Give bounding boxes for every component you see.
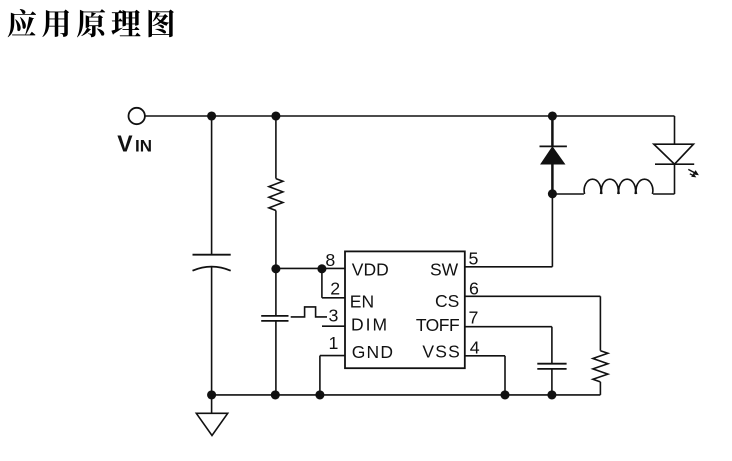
- wire R1 top: [275, 116, 277, 179]
- node junction VDD-C2: [271, 264, 280, 273]
- svg-text:2: 2: [330, 278, 340, 298]
- svg-text:V: V: [117, 130, 133, 156]
- label GND: [352, 342, 395, 362]
- pin 2: [330, 278, 340, 298]
- pin 1: [328, 333, 338, 353]
- pin 3: [329, 306, 339, 326]
- capacitor C3: [537, 364, 566, 369]
- label VDD: [352, 259, 389, 279]
- pin 4: [470, 338, 480, 358]
- diode D1: [540, 146, 567, 193]
- ground: [196, 413, 227, 435]
- capacitor C2: [261, 316, 288, 321]
- svg-text:GND: GND: [352, 342, 395, 362]
- node junction SW node: [548, 189, 557, 198]
- label DIM: [351, 314, 389, 334]
- svg-text:DIM: DIM: [351, 314, 389, 334]
- wire inductor-LED: [653, 164, 674, 194]
- wire VDD: [276, 267, 345, 269]
- svg-text:VDD: VDD: [352, 259, 389, 279]
- wire C2 bottom: [275, 321, 277, 395]
- svg-text:7: 7: [469, 308, 479, 328]
- node junction top-1: [207, 111, 216, 120]
- wire SW-inductor: [552, 193, 584, 195]
- title 应用原理图: [8, 9, 174, 37]
- wire R2 bottom: [599, 382, 601, 395]
- label VIN: [117, 130, 152, 156]
- svg-text:TOFF: TOFF: [416, 315, 459, 335]
- label CS: [435, 291, 459, 311]
- svg-text:8: 8: [325, 250, 335, 270]
- svg-text:5: 5: [468, 249, 478, 269]
- svg-text:SW: SW: [430, 259, 459, 279]
- wire C1 bottom: [211, 266, 213, 395]
- terminal VIN: [129, 108, 145, 124]
- wire CS: [465, 296, 601, 350]
- svg-text:3: 3: [329, 306, 339, 326]
- IC U1: [345, 251, 465, 368]
- LED arrows: [688, 169, 699, 177]
- pin 7: [469, 308, 479, 328]
- svg-text:4: 4: [470, 338, 480, 358]
- inductor L1: [584, 179, 653, 194]
- node junction top-diode: [548, 111, 557, 120]
- pulse waveform DIM: [291, 307, 327, 317]
- svg-text:VSS: VSS: [422, 342, 461, 362]
- svg-text:1: 1: [328, 333, 338, 353]
- wire R1 bottom: [275, 211, 277, 269]
- LED D2: [654, 144, 694, 164]
- wire diode top: [551, 116, 554, 146]
- node junction C2-gnd: [271, 390, 280, 399]
- wire C3 bottom: [551, 369, 553, 395]
- wire GND pin: [320, 356, 345, 395]
- svg-text:CS: CS: [435, 291, 459, 311]
- capacitor C1: [193, 255, 231, 271]
- node junction VDD-EN: [317, 264, 326, 273]
- pin 6: [469, 279, 479, 299]
- node junction C3-gnd: [547, 390, 556, 399]
- wire SW: [465, 194, 553, 267]
- node junction ground: [207, 390, 216, 399]
- wire C1 top: [211, 116, 213, 255]
- wire EN: [322, 269, 345, 298]
- resistor R1: [269, 179, 283, 211]
- wire top rail VIN: [145, 115, 674, 117]
- wire VSS: [465, 356, 505, 395]
- wire bottom rail: [212, 394, 601, 396]
- wire LED top: [674, 116, 676, 144]
- label VSS: [422, 342, 461, 362]
- node junction VSS-gnd: [500, 390, 509, 399]
- wire C2 top: [275, 269, 277, 316]
- pin 8: [325, 250, 335, 270]
- label TOFF: [416, 315, 459, 335]
- svg-text:IN: IN: [135, 136, 152, 155]
- node junction GND-rail: [315, 390, 324, 399]
- node junction top-2: [271, 111, 280, 120]
- svg-text:EN: EN: [350, 292, 374, 312]
- label SW: [430, 259, 459, 279]
- pin 5: [468, 249, 478, 269]
- wire TOFF: [465, 327, 552, 364]
- label EN: [350, 292, 374, 312]
- wire DIM stub: [322, 325, 345, 327]
- wire ground stem: [211, 395, 213, 413]
- resistor R2: [593, 351, 608, 382]
